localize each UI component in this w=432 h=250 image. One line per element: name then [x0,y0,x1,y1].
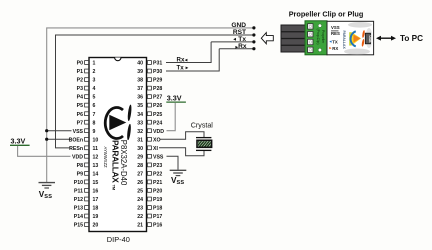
svg-text:TX: TX [332,40,338,45]
svg-text:17: 17 [93,197,99,203]
svg-text:7: 7 [93,112,96,118]
junction dot Rx rail end [252,47,255,50]
svg-text:P16: P16 [153,223,162,229]
svg-text:21: 21 [137,223,143,229]
svg-text:P18: P18 [153,206,162,212]
svg-text:36: 36 [137,95,143,101]
U1 pin 33 (P24) [137,120,162,126]
ground symbol Vss (right) [170,170,187,175]
node label Rx at P31 with arrow [177,57,188,64]
U1 pin 32 (VDD) [137,129,164,135]
U1 pin 35 (P26) [137,103,162,109]
svg-text:PARALLAX TM: PARALLAX TM [111,140,121,191]
svg-text:DIP-40: DIP-40 [107,235,130,244]
U1 pin 2 (P1) [77,69,96,75]
U1 pin 3 (P2) [77,78,96,84]
U1 pin 6 (P5) [77,103,96,109]
svg-text:Propeller Clip or Plug: Propeller Clip or Plug [289,9,364,18]
svg-text:P6: P6 [77,112,83,118]
U1 pin 28 (P23) [137,163,162,169]
svg-text:P30: P30 [153,69,162,75]
svg-text:35: 35 [137,103,143,109]
svg-text:29: 29 [137,154,143,160]
svg-text:34: 34 [137,112,143,118]
wire VSS pin9 stub [47,130,72,132]
ribbon cable [281,25,306,52]
U1 pin 17 (P12) [74,197,99,203]
svg-text:VSS: VSS [153,154,164,160]
svg-text:VSS: VSS [39,190,52,200]
wire Tx rail (header side) [211,41,254,43]
svg-text:40: 40 [137,61,143,67]
svg-text:37: 37 [137,86,143,92]
U1 pin 23 (P18) [137,206,162,212]
svg-text:33: 33 [137,120,143,126]
svg-text:P23: P23 [153,163,162,169]
U1 pin 36 (P27) [137,95,162,101]
svg-text:12: 12 [93,154,99,160]
U1 pin 25 (P20) [137,189,162,195]
svg-text:18: 18 [93,206,99,212]
svg-text:28: 28 [137,163,143,169]
svg-text:19: 19 [93,214,99,220]
module USB connector box [365,33,372,44]
svg-text:Rx: Rx [177,57,185,64]
header PCB (green) [305,21,327,55]
supply 3.3V (left) [10,137,30,146]
svg-text:23: 23 [137,206,143,212]
svg-text:P25: P25 [153,112,162,118]
U1 pin 39 (P30) [137,69,162,75]
svg-text:P28: P28 [153,86,162,92]
svg-text:P29: P29 [153,78,162,84]
svg-text:P22: P22 [153,172,162,178]
svg-text:3.3V: 3.3V [11,137,26,146]
svg-text:Crystal: Crystal [191,121,213,129]
svg-text:P31: P31 [153,61,162,67]
wire GND net (top rail + vertical drop to ground) [47,28,254,183]
svg-text:BOEn: BOEn [69,137,83,143]
U1 pin 31 (XO) [137,137,160,143]
USB module (white board) [327,21,374,55]
svg-text:P26: P26 [153,103,162,109]
svg-text:RX: RX [332,46,338,51]
wire BOEn pin10 stub [47,138,71,140]
module pin label RES (active low) [331,31,340,36]
U1 pin 10 (BOEn) [69,137,99,143]
svg-text:Rx: Rx [238,43,247,50]
svg-text:VSS: VSS [171,176,184,186]
U1 pin 26 (P21) [137,180,162,186]
U1 pin 18 (P13) [74,206,99,212]
svg-text:RES: RES [331,31,340,36]
svg-text:P19: P19 [153,197,162,203]
wire RST net (top rail + vertical to RESn) [56,35,254,148]
junction dot RST rail end [252,33,255,36]
module pin label RX with orange arrow [329,46,338,51]
double arrow to PC [376,36,396,41]
svg-text:P17: P17 [153,214,162,220]
svg-text:GND: GND [231,22,246,29]
ground symbol Vss (left) [39,183,56,188]
svg-text:16: 16 [93,189,99,195]
svg-text:6: 6 [93,103,96,109]
svg-text:To PC: To PC [400,34,423,43]
svg-text:26: 26 [137,180,143,186]
node label Rx with direction arrow [235,43,246,50]
U1 pin 9 (VSS) [73,129,96,135]
svg-text:10: 10 [93,137,99,143]
junction dot BOEn/GND [45,138,48,141]
svg-text:USB: USB [368,35,372,43]
svg-text:14: 14 [93,172,99,178]
svg-text:P21: P21 [153,180,162,186]
svg-text:P11: P11 [74,189,83,195]
U1 pin 20 (P15) [74,223,99,229]
svg-text:30: 30 [137,146,143,152]
svg-text:XI: XI [153,146,158,152]
svg-text:P3: P3 [77,86,83,92]
svg-text:1: 1 [93,61,96,67]
svg-text:P9: P9 [77,172,83,178]
svg-text:20: 20 [93,223,99,229]
svg-text:22: 22 [137,214,143,220]
svg-text:25: 25 [137,189,143,195]
crystal X1 top plate [196,137,211,139]
U1 Parallax logo (black, rotated) [105,104,132,140]
svg-text:P15: P15 [74,223,83,229]
svg-text:9: 9 [93,129,96,135]
U1 pin 1 (P0) [77,61,96,67]
U1 pin 38 (P29) [137,78,162,84]
svg-text:VDD: VDD [153,129,164,135]
svg-text:P13: P13 [74,206,83,212]
svg-text:P0: P0 [77,61,83,67]
U1 pin 13 (P8) [77,163,99,169]
wire Rx rail (header side) [219,48,254,50]
crystal X1 bottom plate [196,149,211,151]
svg-text:31: 31 [137,137,143,143]
wire P30 Tx to Rx rail [166,49,219,71]
svg-text:P12: P12 [74,197,83,203]
U1 pin 40 (P31) [137,61,162,67]
crystal X1 body (hatched) [193,140,216,148]
U1 pin 7 (P6) [77,112,96,118]
svg-text:PARALLAX: PARALLAX [342,31,346,50]
U1 pin 22 (P17) [137,214,162,220]
svg-text:P10: P10 [74,180,83,186]
U1 pin 24 (P19) [137,197,162,203]
svg-text:RESn: RESn [69,146,83,152]
svg-text:P4: P4 [77,95,83,101]
svg-text:P8X32A-D40: P8X32A-D40 [119,140,128,186]
wire P31 Rx to Tx rail [166,42,211,63]
svg-text:3: 3 [93,78,96,84]
connection arrow (hollow, to programming header) [261,33,273,44]
IC U1 P8X32A-D40 body [89,58,147,232]
U1 pin 37 (P28) [137,86,162,92]
svg-text:Tx: Tx [177,64,185,71]
svg-text:8: 8 [93,120,96,126]
svg-text:32: 32 [137,129,143,135]
U1 pin 21 (P16) [137,223,162,229]
U1 pin 19 (P14) [74,214,99,220]
svg-text:XO: XO [153,137,161,143]
U1 pin 34 (P25) [137,112,162,118]
svg-text:P24: P24 [153,120,162,126]
svg-text:P14: P14 [74,214,83,220]
wire VSS pin29 to ground [167,156,179,170]
U1 pin 5 (P4) [77,95,96,101]
svg-text:VSS: VSS [73,129,84,135]
svg-text:P2: P2 [77,78,83,84]
svg-text:VSS: VSS [331,25,340,30]
junction dot VSS/GND [45,129,48,132]
svg-text:P7: P7 [77,120,83,126]
svg-text:2: 2 [93,69,96,75]
svg-text:P1: P1 [77,69,83,75]
module Parallax logo (colored, rotated) [349,30,365,47]
svg-text:3.3V: 3.3V [167,93,182,102]
svg-text:27: 27 [137,172,143,178]
svg-text:AYWWXZZ: AYWWXZZ [103,147,108,169]
U1 pin 30 (XI) [137,146,158,152]
svg-text:13: 13 [93,163,99,169]
U1 pin 16 (P11) [74,189,98,195]
supply 3.3V (right) [166,93,186,102]
svg-text:39: 39 [137,69,143,75]
node label Tx at P30 with arrow [177,64,189,71]
wire VDD pin32 to 3.3V [167,103,176,131]
svg-text:P27: P27 [153,95,162,101]
svg-text:24: 24 [137,197,143,203]
junction dot GND rail end [252,26,255,29]
U1 pin 29 (VSS) [137,154,164,160]
svg-text:P5: P5 [77,103,83,109]
U1 pin 4 (P3) [77,86,96,92]
U1 pin 8 (P7) [77,120,96,126]
U1 pin 15 (P10) [74,180,99,186]
wire XI pin30 to crystal [159,148,204,156]
svg-text:(Prop-Clip): (Prop-Clip) [316,29,320,45]
svg-text:4: 4 [93,86,96,92]
svg-text:38: 38 [137,78,143,84]
svg-text:Propeller: Propeller [321,30,325,44]
svg-text:5: 5 [93,95,96,101]
svg-text:P8: P8 [77,163,83,169]
junction dot Tx rail end [252,40,255,43]
node label Tx with direction arrow [233,36,246,43]
U1 pin 14 (P9) [77,172,99,178]
svg-text:P20: P20 [153,189,162,195]
U1 pin 11 (RESn) [69,146,98,152]
svg-text:15: 15 [93,180,99,186]
U1 pin 12 (VDD) [72,154,98,160]
wire XO pin31 to crystal [160,132,204,140]
module pin label TX with blue arrow [329,40,338,45]
svg-text:VDD: VDD [72,154,83,160]
U1 pin 27 (P22) [137,172,162,178]
wire 3.3V to VDD pin12 [18,146,71,156]
svg-text:11: 11 [93,146,99,152]
